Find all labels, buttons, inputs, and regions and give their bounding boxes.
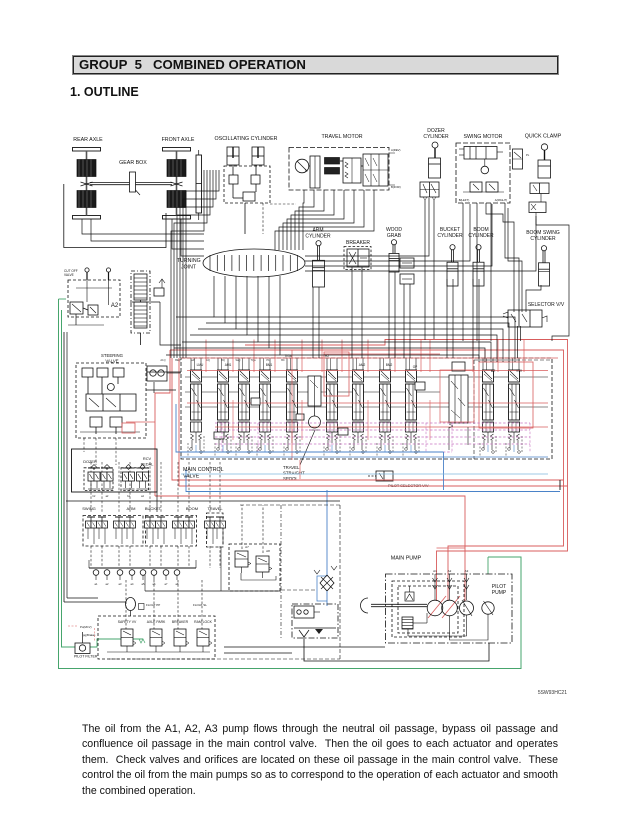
- svg-text:a1: a1: [95, 582, 98, 586]
- svg-text:STRAIGHT: STRAIGHT: [283, 471, 305, 476]
- svg-text:A1Q: A1Q: [160, 358, 165, 362]
- svg-text:PILOT SELECTOR V/V: PILOT SELECTOR V/V: [388, 483, 429, 488]
- svg-text:RAM LOCK: RAM LOCK: [194, 620, 212, 624]
- svg-text:BREAKER: BREAKER: [346, 240, 370, 246]
- svg-text:BUCKET: BUCKET: [145, 506, 162, 511]
- svg-text:b2: b2: [93, 495, 96, 498]
- svg-text:AM1: AM1: [225, 363, 232, 367]
- svg-text:TRAVEL: TRAVEL: [207, 506, 223, 511]
- svg-text:VALVE: VALVE: [64, 273, 74, 277]
- svg-text:B(LEFT): B(LEFT): [459, 198, 470, 202]
- svg-text:PUMP: PUMP: [492, 590, 507, 596]
- svg-text:PEDAL: PEDAL: [141, 462, 155, 467]
- svg-text:BREAKER: BREAKER: [172, 620, 189, 624]
- svg-text:QUICK CLAMP: QUICK CLAMP: [525, 134, 562, 140]
- svg-text:GEAR BOX: GEAR BOX: [119, 160, 147, 166]
- svg-text:aP: aP: [191, 358, 194, 362]
- svg-text:PL: PL: [526, 153, 530, 157]
- svg-text:5SW93HC21: 5SW93HC21: [538, 690, 567, 696]
- svg-text:CYLINDER: CYLINDER: [530, 236, 556, 242]
- svg-text:REAR AXLE: REAR AXLE: [73, 137, 103, 143]
- svg-text:TQa: TQa: [250, 358, 256, 362]
- svg-text:a2: a2: [106, 495, 109, 498]
- svg-text:a3: a3: [119, 582, 122, 586]
- svg-text:BM1: BM1: [266, 363, 273, 367]
- svg-text:BOOM: BOOM: [186, 506, 198, 511]
- svg-text:Po(MCV): Po(MCV): [80, 625, 92, 629]
- svg-text:SW: SW: [516, 369, 522, 373]
- svg-text:BZ: BZ: [491, 369, 496, 373]
- svg-text:BM2: BM2: [386, 363, 393, 367]
- svg-text:a7: a7: [165, 582, 168, 586]
- svg-text:AXLE PARK: AXLE PARK: [147, 620, 166, 624]
- svg-text:TURNING: TURNING: [177, 258, 201, 264]
- svg-text:A3: A3: [465, 569, 469, 573]
- svg-text:A2: A2: [111, 303, 119, 309]
- svg-text:a4: a4: [141, 495, 144, 498]
- svg-text:OP: OP: [413, 365, 418, 369]
- svg-text:A1: A1: [433, 569, 437, 573]
- svg-text:A2: A2: [448, 569, 452, 573]
- svg-text:BQ: BQ: [221, 358, 225, 362]
- svg-text:TRAVEL MOTOR: TRAVEL MOTOR: [321, 134, 362, 140]
- svg-text:CYLINDER: CYLINDER: [423, 134, 449, 140]
- svg-text:BC: BC: [281, 358, 285, 362]
- svg-text:STEERING: STEERING: [101, 353, 124, 358]
- svg-text:a4: a4: [131, 582, 134, 586]
- svg-text:a2: a2: [106, 582, 109, 586]
- svg-text:9aQ: 9aQ: [236, 358, 241, 362]
- svg-text:TRAVEL: TRAVEL: [283, 465, 300, 470]
- svg-text:B(FOR): B(FOR): [391, 185, 401, 189]
- svg-text:CYLINDER: CYLINDER: [437, 233, 463, 239]
- svg-text:A(REV): A(REV): [391, 148, 401, 152]
- svg-text:FRONT AXLE: FRONT AXLE: [162, 137, 195, 143]
- svg-text:A7: A7: [245, 545, 249, 549]
- svg-text:JOINT: JOINT: [181, 265, 197, 271]
- svg-text:FLOAT SL: FLOAT SL: [193, 603, 207, 607]
- svg-text:P1: P1: [266, 358, 270, 362]
- svg-text:SWING: SWING: [82, 506, 96, 511]
- svg-text:AQ: AQ: [206, 358, 210, 362]
- svg-text:a5: a5: [142, 582, 145, 586]
- svg-text:AM2: AM2: [359, 363, 366, 367]
- svg-text:GRAB: GRAB: [387, 233, 402, 239]
- svg-text:MAIN PUMP: MAIN PUMP: [391, 556, 422, 562]
- svg-text:FLOAT PP: FLOAT PP: [146, 603, 160, 607]
- svg-text:a6: a6: [153, 582, 156, 586]
- svg-text:A(RIGHT): A(RIGHT): [495, 198, 507, 202]
- svg-text:LMU: LMU: [197, 363, 204, 367]
- svg-text:SELECTOR V/V: SELECTOR V/V: [528, 302, 565, 308]
- svg-text:ARM: ARM: [127, 506, 136, 511]
- svg-text:pg(Brake): pg(Brake): [83, 633, 95, 637]
- svg-text:RCV: RCV: [143, 456, 152, 461]
- svg-text:DOZER: DOZER: [83, 459, 97, 464]
- svg-text:A8: A8: [266, 549, 270, 553]
- svg-text:a8: a8: [176, 582, 179, 586]
- svg-text:BEQ: BEQ: [175, 358, 180, 362]
- svg-text:CYLINDER: CYLINDER: [305, 234, 331, 240]
- svg-text:TIGa: TIGa: [284, 354, 291, 358]
- svg-text:PILOT FILTER: PILOT FILTER: [74, 655, 98, 659]
- svg-text:SWING MOTOR: SWING MOTOR: [463, 134, 502, 140]
- svg-text:SAFETY VV: SAFETY VV: [118, 620, 137, 624]
- svg-text:CYLINDER: CYLINDER: [468, 233, 494, 239]
- svg-text:OSCILLATING CYLINDER: OSCILLATING CYLINDER: [215, 136, 278, 142]
